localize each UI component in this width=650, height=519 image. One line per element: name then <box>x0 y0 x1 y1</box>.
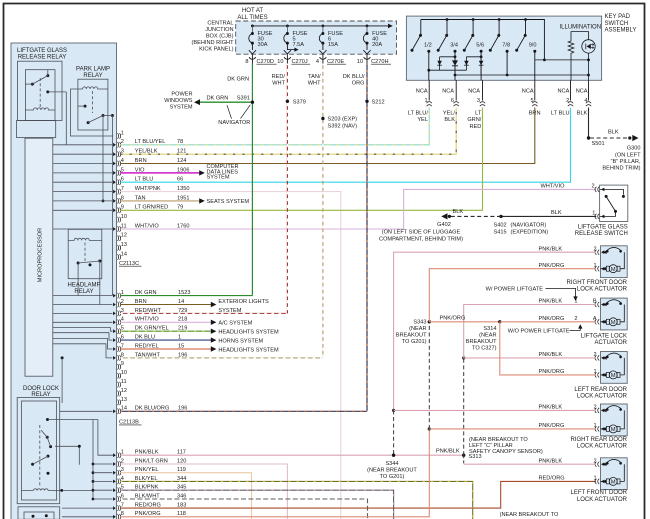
svg-text:1: 1 <box>574 299 577 305</box>
svg-text:10: 10 <box>357 59 363 65</box>
fuse 30 30A F30 <box>249 25 256 54</box>
left front door lock actuator M5 <box>595 458 627 490</box>
diode D4 <box>479 57 484 75</box>
label power windows system <box>164 91 193 110</box>
headlamp relay K3 <box>68 229 102 278</box>
svg-text:196: 196 <box>178 406 187 412</box>
wire BLK switch to S402 <box>501 215 596 217</box>
group1 circuit numbers <box>177 139 189 229</box>
svg-text:RED: RED <box>469 124 481 130</box>
svg-text:TAN/: TAN/ <box>308 74 321 80</box>
wire PNK/LT GRN 120 pin2 <box>120 464 287 519</box>
relay K5 bottom partial <box>18 507 60 519</box>
svg-text:2: 2 <box>593 458 596 464</box>
svg-text:SYSTEM: SYSTEM <box>218 308 241 314</box>
svg-text:2: 2 <box>593 352 596 358</box>
wire WHT/VIO 218 pin4 to a/c system <box>120 320 216 325</box>
wire RED/WHT 729 pin3 from fuse 5 <box>120 312 287 314</box>
svg-text:A: A <box>593 316 597 322</box>
wire park relay coil to row1 <box>71 89 114 136</box>
wire PNK/BLK to liftgate actuator pin B <box>464 305 596 358</box>
fuse 5 7.5A F5 <box>284 25 299 54</box>
right rear door lock actuator M4 <box>595 404 627 436</box>
svg-text:13: 13 <box>121 397 127 403</box>
connector C270E <box>316 54 346 65</box>
svg-text:SYSTEM: SYSTEM <box>207 174 230 180</box>
svg-text:78: 78 <box>177 139 183 145</box>
svg-text:B: B <box>593 299 597 305</box>
wire BLK/PNK 345 pin5 <box>120 490 393 519</box>
splice S314 <box>466 320 502 351</box>
svg-text:S392 (NAV): S392 (NAV) <box>328 123 358 129</box>
label TAN/WHT vertical <box>308 74 321 87</box>
svg-text:124: 124 <box>177 158 186 164</box>
splice S343 <box>396 319 431 345</box>
label exterior lights system <box>218 299 269 314</box>
svg-text:11: 11 <box>121 379 127 385</box>
svg-text:66: 66 <box>177 177 183 183</box>
wire BLK/YEL 344 pin4 <box>120 481 473 519</box>
switch 3/4 <box>437 20 458 81</box>
wire WHT/PNK 1350 pin7 <box>120 192 341 519</box>
svg-text:BRN: BRN <box>135 158 147 164</box>
svg-text:RED/ORG: RED/ORG <box>135 503 161 509</box>
diode D3 <box>464 57 469 70</box>
svg-text:TO C327): TO C327) <box>472 346 497 352</box>
svg-text:30A: 30A <box>258 42 268 48</box>
svg-text:PNK/LT GRN: PNK/LT GRN <box>135 458 168 464</box>
svg-text:NCA: NCA <box>576 88 588 94</box>
svg-text:NCA: NCA <box>416 88 428 94</box>
label left front door lock actuator <box>571 490 628 503</box>
wire PNK/BLK dashed to S344 <box>393 410 395 455</box>
wire PNK/ORG 118 pin8 <box>120 429 429 517</box>
svg-text:S203 (EXP): S203 (EXP) <box>328 116 358 122</box>
fuse 5 label <box>293 31 308 48</box>
svg-text:HEADLAMP: HEADLAMP <box>67 282 100 288</box>
svg-text:LEFT FRONT DOOR: LEFT FRONT DOOR <box>571 490 628 496</box>
wire LT BLU 66 pin6 to keypad pin2 <box>120 108 570 183</box>
splice S313 <box>462 437 543 460</box>
svg-text:HOT AT: HOT AT <box>242 8 263 14</box>
svg-text:RED/WHT: RED/WHT <box>135 308 162 314</box>
svg-text:M: M <box>611 480 616 486</box>
module internal wires group2 <box>53 296 113 412</box>
label right front door lock actuator <box>567 280 628 293</box>
wire TAN/WHT 196 pin8 from fuse 6 <box>120 357 323 359</box>
svg-text:118: 118 <box>177 511 186 517</box>
svg-text:1906: 1906 <box>177 167 189 173</box>
svg-text:1760: 1760 <box>177 223 189 229</box>
label right rear door lock actuator <box>570 437 627 450</box>
svg-text:79: 79 <box>177 205 183 211</box>
svg-text:GRN/: GRN/ <box>467 117 481 123</box>
svg-text:(NEAR BREAKOUT: (NEAR BREAKOUT <box>367 468 417 474</box>
svg-text:BLK: BLK <box>608 130 619 136</box>
wire TAN/WHT fuse 6 down <box>322 64 324 358</box>
svg-text:121: 121 <box>177 149 186 155</box>
svg-text:PNK/BLK: PNK/BLK <box>539 299 563 305</box>
wire TAN 1951 pin8 to seats system <box>120 198 205 203</box>
svg-text:LT BLU/YEL: LT BLU/YEL <box>135 139 166 145</box>
switch 5/6 <box>463 20 484 81</box>
wire door relay to group3 bus <box>48 420 114 500</box>
group3 wire names <box>135 450 168 518</box>
switch 9/0 <box>515 20 536 81</box>
svg-text:ACTUATOR: ACTUATOR <box>595 340 628 346</box>
svg-text:PNK/BLK: PNK/BLK <box>539 352 563 358</box>
svg-text:BREAKOUT: BREAKOUT <box>466 339 497 345</box>
svg-text:TAN: TAN <box>135 195 146 201</box>
wire park relay contact down to row8 <box>102 116 105 203</box>
wire BLK keypad pin4 to S501 <box>588 108 590 139</box>
svg-text:BRN: BRN <box>135 299 147 305</box>
label liftgate glass release switch <box>575 224 628 237</box>
svg-text:196: 196 <box>178 352 187 358</box>
group1 wire names <box>135 139 168 229</box>
fuse 6 label <box>328 31 343 48</box>
svg-text:WHT/VIO: WHT/VIO <box>135 223 160 229</box>
svg-text:BLK/WHT: BLK/WHT <box>135 493 160 499</box>
ground G300 <box>628 135 638 141</box>
svg-text:LT BLU/: LT BLU/ <box>408 111 428 117</box>
splice S344 <box>367 454 417 481</box>
ground G402 <box>441 213 451 219</box>
liftgate glass release switch SW1 <box>595 185 628 221</box>
svg-text:HEADLIGHTS SYSTEM: HEADLIGHTS SYSTEM <box>218 347 279 353</box>
svg-text:S313: S313 <box>469 454 482 460</box>
wire RED/WHT fuse 5 down <box>286 64 288 314</box>
wire PNK/ORG dashed up to S343 <box>428 322 430 429</box>
svg-text:10: 10 <box>121 370 127 376</box>
fuse 40 label <box>372 31 387 48</box>
svg-text:S391: S391 <box>237 95 250 101</box>
svg-text:S501: S501 <box>592 141 605 147</box>
svg-text:DK GRN/YEL: DK GRN/YEL <box>135 326 169 332</box>
wire PNK/BLK 117 pin1 to S313 <box>120 454 464 456</box>
connector C2113B label <box>119 420 142 426</box>
wire PNK/BLK dashed S313 up <box>463 358 465 455</box>
svg-text:ILLUMINATION: ILLUMINATION <box>560 25 602 31</box>
connector C270J <box>277 54 310 65</box>
svg-text:WHT/PNK: WHT/PNK <box>135 186 161 192</box>
svg-text:219: 219 <box>178 326 187 332</box>
svg-text:LT BLU: LT BLU <box>551 111 569 117</box>
svg-text:12: 12 <box>121 388 127 394</box>
fuse 30 label <box>258 31 273 48</box>
svg-text:15A: 15A <box>328 42 338 48</box>
wire DK GRN/YEL 219 pin5 to headlights system <box>120 329 216 334</box>
svg-text:NCA: NCA <box>468 88 480 94</box>
svg-text:TO G201): TO G201) <box>402 339 427 345</box>
svg-text:PNK/BLK: PNK/BLK <box>436 449 460 455</box>
svg-text:YEL/BLK: YEL/BLK <box>135 149 158 155</box>
resistor illumination <box>568 40 574 80</box>
actuator pin number labels <box>574 246 596 481</box>
wire DK BLU/ORG 196 pin14 from fuse 40 <box>120 410 367 412</box>
svg-text:7.5A: 7.5A <box>293 42 305 48</box>
svg-text:3: 3 <box>477 98 480 104</box>
svg-text:KICK PANEL): KICK PANEL) <box>199 46 234 52</box>
svg-text:(ON LEFT: (ON LEFT <box>615 152 641 158</box>
svg-text:S344: S344 <box>385 461 398 467</box>
svg-text:1: 1 <box>592 211 595 217</box>
svg-text:13: 13 <box>121 242 127 248</box>
svg-text:BLK: BLK <box>453 209 464 215</box>
wire RED/ORG 183 pin7 to left front door lock actuator <box>120 481 596 508</box>
svg-text:MICROPROCESSOR: MICROPROCESSOR <box>38 228 44 282</box>
wire BLK S501 to G300 <box>590 137 629 139</box>
microprocessor U1 <box>25 138 53 376</box>
wire PNK/BLK S313 to left front door pin2 <box>464 455 596 464</box>
svg-text:1: 1 <box>593 369 596 375</box>
splice S203 S392 <box>321 116 357 129</box>
svg-text:COMPARTMENT, BEHIND TRIM): COMPARTMENT, BEHIND TRIM) <box>379 237 463 243</box>
svg-text:3/4: 3/4 <box>450 42 458 48</box>
keypad top rail <box>421 18 545 60</box>
wire RED/YEL 15 pin7 to headlights system <box>120 346 216 351</box>
wire WHT/VIO 1760 pin11 to liftgate glass release switch <box>120 189 596 229</box>
svg-text:G300: G300 <box>627 146 641 152</box>
svg-text:15: 15 <box>178 343 184 349</box>
keypad pin wire names <box>408 111 588 130</box>
svg-text:EXTERIOR LIGHTS: EXTERIOR LIGHTS <box>218 299 269 305</box>
svg-text:119: 119 <box>177 467 186 473</box>
svg-text:VIO: VIO <box>135 167 145 173</box>
svg-text:DK BLU: DK BLU <box>135 335 155 341</box>
connector C2113C pin numbers <box>121 130 127 257</box>
module internal wires group1 <box>53 145 113 229</box>
svg-text:TAN/WHT: TAN/WHT <box>135 352 161 358</box>
connector C2113C label <box>119 261 142 267</box>
svg-text:344: 344 <box>177 476 186 482</box>
right front door lock actuator M1 <box>595 246 627 278</box>
wire relay K1 to row2 <box>65 92 67 145</box>
svg-text:PNK/ORG: PNK/ORG <box>539 369 565 375</box>
svg-text:1: 1 <box>424 98 427 104</box>
wire PNK/BLK to left rear door pin2 <box>464 357 596 359</box>
svg-text:WINDOWS: WINDOWS <box>164 98 193 104</box>
svg-text:(EXPEDITION): (EXPEDITION) <box>511 230 549 236</box>
CJB bus rail <box>252 24 392 29</box>
svg-text:PNK/ORG: PNK/ORG <box>539 316 565 322</box>
wire PNK/ORG S314 to left rear door pin1 <box>500 322 596 375</box>
illumination bracket <box>571 32 589 40</box>
svg-text:7/8: 7/8 <box>502 42 510 48</box>
svg-text:2: 2 <box>593 246 596 252</box>
junction dots group3 bus <box>92 463 95 501</box>
svg-text:(BEHIND RIGHT: (BEHIND RIGHT <box>192 40 235 46</box>
svg-text:4: 4 <box>316 59 319 65</box>
svg-text:PNK/ORG: PNK/ORG <box>539 263 565 269</box>
wire BRN 14 pin2 to exterior lights <box>120 302 216 307</box>
svg-text:HORNS SYSTEM: HORNS SYSTEM <box>218 338 263 344</box>
LED illumination <box>582 40 595 81</box>
svg-text:POWER: POWER <box>171 91 192 97</box>
svg-text:LOCK ACTUATOR: LOCK ACTUATOR <box>577 394 628 400</box>
label G300 <box>602 146 641 172</box>
wire DK GRN to power windows system <box>194 99 252 105</box>
svg-text:9/0: 9/0 <box>529 42 537 48</box>
label computer data lines system <box>207 164 239 180</box>
svg-text:1/2: 1/2 <box>424 42 432 48</box>
keypad pin NCA labels <box>416 88 588 94</box>
door lock relay K4 <box>17 398 93 504</box>
connector C2113C pin marks <box>113 133 121 260</box>
wire DK GRN fuse 30 down <box>251 64 253 296</box>
svg-text:10: 10 <box>121 214 127 220</box>
svg-text:(ON LEFT SIDE OF LUGGAGE: (ON LEFT SIDE OF LUGGAGE <box>382 229 461 235</box>
svg-text:LT BLU: LT BLU <box>135 177 153 183</box>
label RED/WHT vertical <box>272 74 286 87</box>
svg-text:PNK/BLK: PNK/BLK <box>539 458 563 464</box>
splice S501 <box>587 136 605 147</box>
svg-text:M: M <box>611 267 616 273</box>
svg-text:SYSTEM: SYSTEM <box>169 105 192 111</box>
svg-text:W/ POWER LIFTGATE: W/ POWER LIFTGATE <box>486 286 544 292</box>
svg-text:M: M <box>611 427 616 433</box>
label central junction box <box>192 20 235 52</box>
svg-text:NCA: NCA <box>522 88 534 94</box>
svg-text:117: 117 <box>177 450 186 456</box>
connector C2113B pin numbers <box>121 290 127 412</box>
svg-text:WHT/VIO: WHT/VIO <box>541 183 566 189</box>
connector group3 pin marks <box>113 452 121 519</box>
svg-text:S314: S314 <box>483 326 496 332</box>
svg-text:1: 1 <box>593 476 596 482</box>
svg-text:183: 183 <box>177 503 186 509</box>
park lamp relay K2 label <box>76 67 110 80</box>
svg-text:LIFTGATE GLASS: LIFTGATE GLASS <box>578 224 628 230</box>
label w/ power liftgate with arrow <box>486 286 578 301</box>
svg-text:LIFTGATE GLASS: LIFTGATE GLASS <box>17 48 67 54</box>
svg-text:14: 14 <box>178 299 184 305</box>
keypad pin numbers <box>424 98 587 104</box>
svg-text:RELAY: RELAY <box>83 73 102 79</box>
group3 circuit numbers <box>177 450 186 518</box>
wire PNK/ORG S314 to liftgate actuator pin A <box>500 321 596 323</box>
svg-text:HEADLIGHTS SYSTEM: HEADLIGHTS SYSTEM <box>218 330 279 336</box>
node PNK/BLK at 410 <box>392 409 395 412</box>
wire PNK/BLK to right rear door pin2 <box>394 409 596 411</box>
svg-text:ALL TIMES: ALL TIMES <box>237 15 267 21</box>
svg-text:2: 2 <box>593 405 596 411</box>
node PNK/ORG at 429 <box>428 427 431 430</box>
svg-text:KEY PAD: KEY PAD <box>605 14 631 20</box>
svg-text:1951: 1951 <box>177 195 189 201</box>
diode D2 <box>452 57 458 75</box>
label G402 <box>379 222 463 242</box>
svg-text:2: 2 <box>591 184 594 190</box>
splice S379 <box>286 100 306 106</box>
svg-text:NCA: NCA <box>442 88 454 94</box>
svg-text:218: 218 <box>178 317 187 323</box>
svg-text:BREAKOUT: BREAKOUT <box>396 332 427 338</box>
svg-text:SWITCH: SWITCH <box>605 21 629 27</box>
svg-text:NAVIGATOR: NAVIGATOR <box>218 120 250 126</box>
wire LT BLU/YEL 78 pin2 to keypad pin1 <box>120 108 429 145</box>
svg-text:8: 8 <box>245 59 248 65</box>
svg-text:M: M <box>611 373 616 379</box>
svg-text:LEFT REAR DOOR: LEFT REAR DOOR <box>574 387 627 393</box>
wire BLK/WHT 346 pin6 <box>120 499 367 519</box>
headlamp relay K3 label <box>67 282 100 295</box>
svg-text:LOCK ACTUATOR: LOCK ACTUATOR <box>577 287 628 293</box>
svg-text:LIFTGATE LOCK: LIFTGATE LOCK <box>581 333 627 339</box>
splice S212 <box>365 100 384 106</box>
wire BRN 124 pin4 to keypad pin5 <box>120 108 535 164</box>
driver door module box <box>11 43 117 519</box>
svg-text:1350: 1350 <box>177 186 189 192</box>
group2 wire names <box>135 290 170 412</box>
keypad bottom rail <box>535 59 589 61</box>
svg-text:LOCK ACTUATOR: LOCK ACTUATOR <box>577 444 628 450</box>
svg-text:JUNCTION: JUNCTION <box>205 27 233 33</box>
switch pin numbers <box>591 184 595 217</box>
label hot at all times <box>237 8 267 21</box>
svg-text:20A: 20A <box>372 42 382 48</box>
wire PNK/YEL 119 pin3 <box>120 473 251 519</box>
fuse 6 15A F6 <box>319 25 326 54</box>
label DK BLU/ORG vertical <box>343 74 365 87</box>
svg-text:1523: 1523 <box>178 290 190 296</box>
svg-text:BOX (CJB): BOX (CJB) <box>206 33 234 39</box>
wire headlamp relay to group2 row1 <box>77 263 79 296</box>
wire VIO 1906 pin5 to computer data lines <box>120 170 205 175</box>
svg-text:9: 9 <box>121 361 124 367</box>
wire LT GRN/RED 79 pin9 to keypad pin3 <box>120 108 482 211</box>
svg-text:A/C SYSTEM: A/C SYSTEM <box>218 321 252 327</box>
svg-text:DK GRN: DK GRN <box>135 290 157 296</box>
svg-text:NCA: NCA <box>557 88 569 94</box>
wire row8 bus to door lock relay <box>61 356 64 403</box>
label left rear door lock actuator <box>574 387 627 400</box>
wire module to rows 7 8 <box>62 508 113 517</box>
svg-text:S379: S379 <box>293 100 306 106</box>
switch 7/8 <box>489 20 510 76</box>
svg-text:346: 346 <box>177 493 186 499</box>
svg-text:RED/: RED/ <box>272 74 286 80</box>
svg-text:1: 1 <box>593 423 596 429</box>
svg-text:PNK/ORG: PNK/ORG <box>440 316 466 322</box>
svg-text:RIGHT FRONT DOOR: RIGHT FRONT DOOR <box>567 280 628 286</box>
svg-text:LT GRN/RED: LT GRN/RED <box>135 205 168 211</box>
svg-text:BRN: BRN <box>529 111 541 117</box>
svg-text:14: 14 <box>121 251 127 257</box>
svg-text:“B” PILLAR,: “B” PILLAR, <box>611 159 641 165</box>
svg-text:PNK/BLK: PNK/BLK <box>135 450 159 456</box>
svg-text:RIGHT REAR DOOR: RIGHT REAR DOOR <box>570 437 627 443</box>
svg-text:BLK: BLK <box>577 111 588 117</box>
svg-text:S212: S212 <box>372 100 385 106</box>
svg-text:G402: G402 <box>437 222 451 228</box>
svg-text:LT: LT <box>475 111 482 117</box>
svg-text:BLK/PNK: BLK/PNK <box>135 485 159 491</box>
left rear door lock actuator M3 <box>595 352 627 384</box>
svg-text:W/O POWER LIFTGATE: W/O POWER LIFTGATE <box>508 329 570 335</box>
wire DK GRN 1523 pin1 from fuse 30 <box>120 295 252 297</box>
svg-text:LOCK ACTUATOR: LOCK ACTUATOR <box>577 497 628 503</box>
liftgate lock actuator M2 <box>595 298 627 330</box>
label w/o power liftgate with arrow <box>508 324 583 334</box>
group2 circuit numbers <box>178 290 190 412</box>
svg-text:345: 345 <box>177 485 186 491</box>
svg-text:729: 729 <box>178 308 187 314</box>
label navigator with pointers <box>218 105 250 126</box>
svg-text:DK BLU/: DK BLU/ <box>343 74 365 80</box>
svg-text:1: 1 <box>593 263 596 269</box>
wire door relay lower links <box>55 446 79 465</box>
